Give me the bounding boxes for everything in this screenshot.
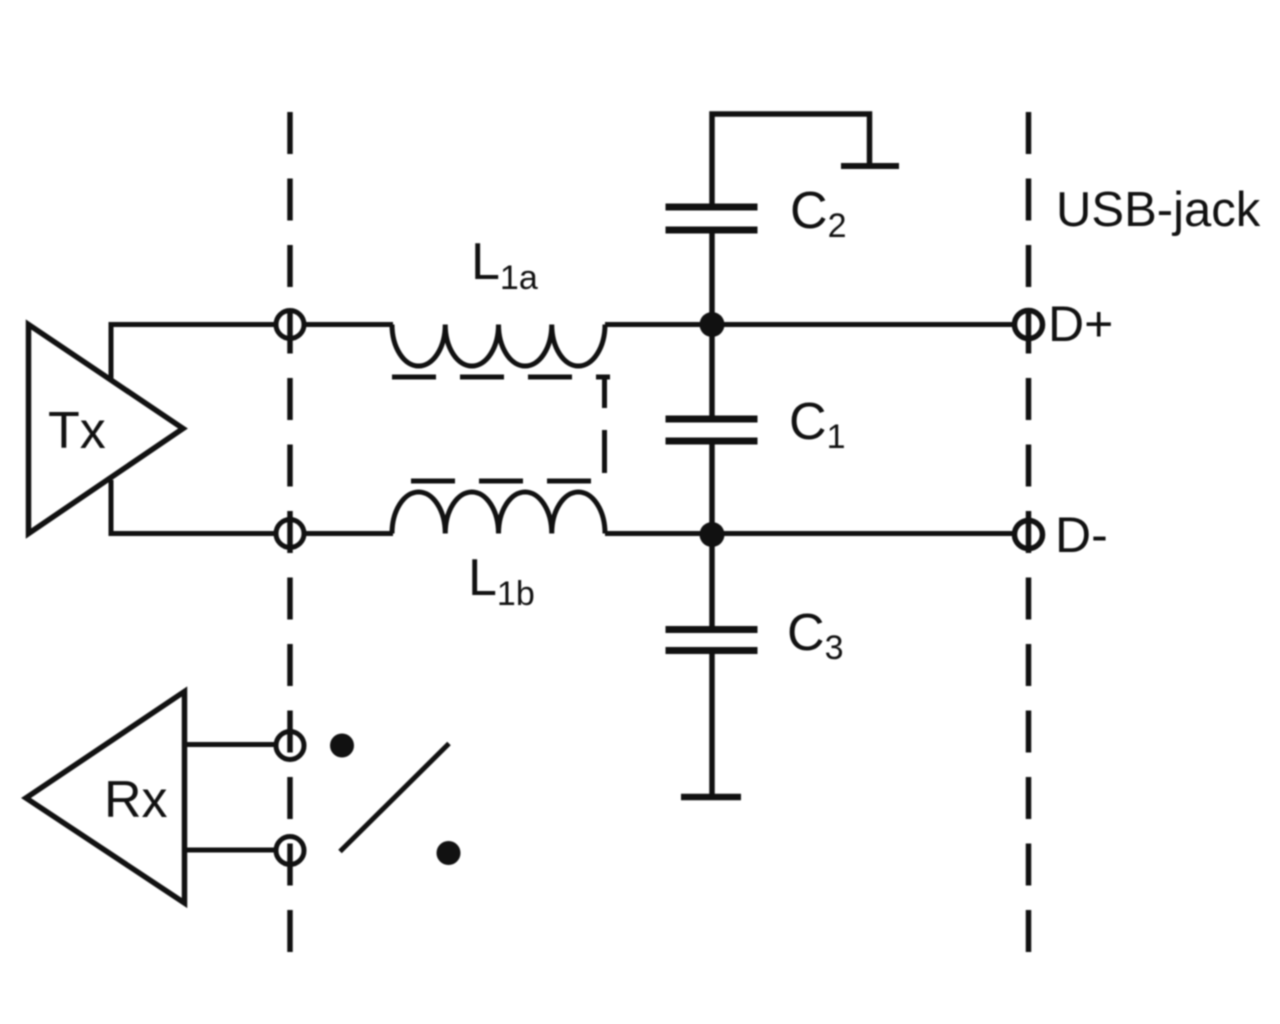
wire C1 to node D- xyxy=(709,445,715,537)
svg-text:Tx: Tx xyxy=(48,402,106,460)
ground (bottom, at C3) xyxy=(681,794,741,801)
svg-text:Rx: Rx xyxy=(104,771,168,829)
capacitor C3 xyxy=(666,630,758,651)
wire Tx+ output to pin xyxy=(111,325,277,381)
ground (top, at C2 hook) xyxy=(841,163,899,169)
coupled-inductor dashed box bottom edge xyxy=(411,479,591,484)
USB-jack boundary dashed line (right) xyxy=(1026,112,1032,956)
amplifier Tx xyxy=(29,325,184,534)
switch blade xyxy=(340,744,449,852)
wire C2 to node D+ xyxy=(709,234,715,327)
wire Tx- output to pin xyxy=(111,480,277,534)
node D- junction xyxy=(700,522,725,547)
svg-text:USB-jack: USB-jack xyxy=(1056,183,1261,237)
amplifier Rx xyxy=(26,692,185,904)
coupled-inductor dashed box right edge xyxy=(602,379,607,481)
terminal pin D+ (USB jack) xyxy=(1015,311,1043,339)
wire Rx top input xyxy=(187,742,277,747)
wire L1a to node D+ xyxy=(605,322,1015,327)
terminal pin (Tx- / IC D-) xyxy=(276,520,304,548)
node D+ junction xyxy=(700,312,725,337)
inductor L1a xyxy=(392,325,605,367)
switch contact dot (top) xyxy=(330,734,354,758)
wire pin to L1b xyxy=(304,531,394,536)
wire pin to L1a xyxy=(304,322,394,327)
terminal pin (Tx+ / IC D+) xyxy=(276,311,304,339)
coupled-inductor dashed box top edge xyxy=(392,375,610,380)
wire node D- to C3 xyxy=(709,533,715,626)
wire C2 top hook to ground xyxy=(712,114,870,206)
wire node D+ to C1 xyxy=(709,323,715,416)
wire Rx bottom input xyxy=(187,848,277,853)
terminal pin (Rx bottom) xyxy=(276,837,304,865)
switch contact dot (bottom) xyxy=(437,841,461,865)
svg-text:D+: D+ xyxy=(1048,296,1113,352)
terminal pin (Rx top) xyxy=(276,732,304,760)
svg-text:D-: D- xyxy=(1055,507,1108,563)
terminal pin D- (USB jack) xyxy=(1015,521,1043,549)
capacitor C2 xyxy=(666,207,758,230)
inductor L1b xyxy=(392,492,605,534)
wire C3 to ground xyxy=(709,654,715,797)
wire L1b to node D- xyxy=(605,531,1015,536)
capacitor C1 xyxy=(666,419,758,441)
IC boundary dashed line (left) xyxy=(287,112,293,956)
